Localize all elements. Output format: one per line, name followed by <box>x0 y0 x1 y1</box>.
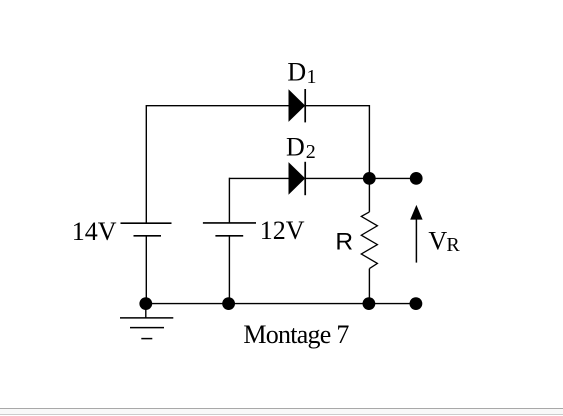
ground <box>120 304 173 339</box>
svg-text:D: D <box>287 57 306 86</box>
svg-text:R: R <box>446 234 460 256</box>
arrow VR <box>410 205 422 263</box>
wire top rail left of D1 <box>146 105 288 107</box>
svg-text:2: 2 <box>306 141 316 163</box>
resistor R zigzag <box>361 212 377 269</box>
svg-text:14V: 14V <box>72 217 117 246</box>
label D1 <box>287 57 316 88</box>
wire top rail right of D1 <box>305 105 369 107</box>
battery B2 12V <box>203 223 256 236</box>
svg-text:D: D <box>286 133 305 162</box>
node junction D2/R <box>363 172 376 185</box>
diode D1 <box>289 89 306 122</box>
node resistor bottom <box>363 297 376 310</box>
wire right vertical lower <box>368 269 370 304</box>
wire right vertical upper <box>368 105 370 212</box>
wire middle rail right of D2 to terminal <box>305 177 416 179</box>
node ground left <box>139 297 152 310</box>
node terminal bottom right <box>410 297 423 310</box>
node battery 12V bottom <box>222 297 235 310</box>
diode D2 <box>289 162 306 195</box>
svg-text:R: R <box>335 229 353 256</box>
bottom horizontal rule <box>0 408 563 415</box>
wire bottom rail <box>146 303 416 305</box>
svg-text:12V: 12V <box>260 216 305 245</box>
wire left vertical lower <box>145 236 147 304</box>
label D2 <box>286 133 316 164</box>
label VR <box>428 227 460 256</box>
wire middle rail left of D2 <box>229 177 288 179</box>
wire middle vertical upper <box>228 178 230 223</box>
svg-text:V: V <box>428 227 447 256</box>
wire left vertical upper <box>145 105 147 223</box>
wire middle vertical lower <box>228 236 230 304</box>
battery B1 14V <box>121 223 172 236</box>
svg-text:1: 1 <box>307 66 317 88</box>
node terminal top right <box>410 172 423 185</box>
svg-text:Montage 7: Montage 7 <box>243 320 349 349</box>
